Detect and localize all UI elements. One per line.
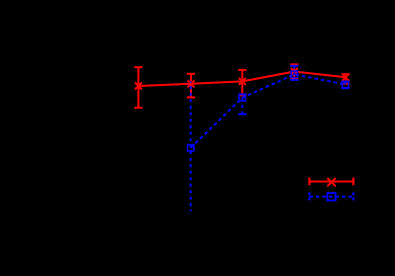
red errorbar point 2 <box>187 74 195 98</box>
blue square marker point 1 <box>188 145 194 151</box>
legend blue left end tick (dashed) <box>308 192 310 200</box>
legend blue right end tick (dashed) <box>352 192 354 200</box>
red errorbar point 5 <box>342 74 350 84</box>
red x marker point 1 <box>135 83 142 90</box>
legend red right end tick <box>352 178 354 186</box>
legend blue square marker <box>327 193 335 201</box>
blue errorbar point 1 (top clipped behind red, bottom clipped at axis) <box>190 81 192 211</box>
blue series line (dashed) <box>191 74 346 148</box>
blue errorbar point 3 <box>290 66 298 80</box>
blue errorbar point 4 <box>341 82 349 89</box>
legend blue sample line (dashed) <box>309 196 353 198</box>
blue errorbar point 2 <box>238 94 246 114</box>
blue square marker point 4 <box>342 81 348 87</box>
red errorbar point 3 <box>238 70 246 96</box>
red x marker point 3 <box>239 78 246 85</box>
legend red x marker <box>327 178 335 186</box>
blue square marker point 3 <box>291 71 297 77</box>
blue square marker point 2 <box>239 95 245 101</box>
legend red left end tick <box>308 178 310 186</box>
red series line (solid) <box>138 72 345 87</box>
legend red sample line <box>309 181 353 183</box>
red x marker point 2 <box>188 80 195 87</box>
red x marker point 5 <box>342 74 349 81</box>
red errorbar point 1 <box>134 67 142 108</box>
red x marker point 4 <box>291 68 298 75</box>
red errorbar point 4 <box>290 64 298 78</box>
